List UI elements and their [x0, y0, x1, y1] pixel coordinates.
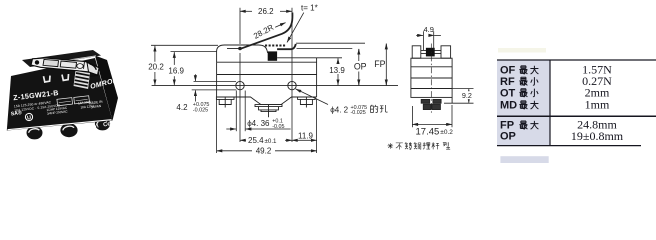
table column divider [549, 60, 551, 146]
leader and label hole dia right [296, 89, 328, 105]
photo OMRON logo [90, 77, 120, 91]
svg-text:-0.025: -0.025 [351, 110, 366, 116]
svg-text:OT: OT [500, 87, 516, 99]
dimension FP [385, 44, 387, 86]
side view internal lines [411, 67, 452, 103]
svg-text:-0.025: -0.025 [193, 108, 208, 114]
lever in free position (angled, solid) [239, 13, 292, 50]
table left column background [497, 60, 550, 146]
svg-text:49.2: 49.2 [256, 147, 272, 156]
extension line x=292 (lever tip / right hole) [291, 8, 293, 142]
photo top-front edge highlight [57, 56, 96, 62]
dimension 17.45±0.2 [412, 105, 452, 127]
photo boxed rating labels [57, 96, 90, 106]
svg-text:FP: FP [500, 120, 514, 132]
dimension 16.9 [171, 52, 217, 86]
extension line x=240 (pivot / left hole) [239, 8, 241, 142]
svg-text:FP: FP [374, 59, 385, 69]
13.9 level line extension [317, 57, 342, 59]
label hole (CJK de kong) [371, 105, 388, 113]
table middle divider [497, 115, 656, 117]
side view terminal screw [421, 100, 441, 110]
photo spring coil [74, 71, 91, 90]
svg-text:ϕ4. 2: ϕ4. 2 [330, 106, 348, 115]
svg-text:16.9: 16.9 [168, 66, 184, 75]
svg-text:9.2: 9.2 [462, 91, 472, 100]
terminal screw left [216, 97, 234, 108]
svg-text:4.9: 4.9 [423, 25, 433, 34]
mounting hole left [236, 81, 244, 89]
photo terminal screw bump right [95, 117, 110, 130]
svg-text:OP: OP [500, 131, 516, 143]
leader 28.2R [275, 23, 285, 28]
photo molded U marks [44, 74, 69, 82]
label t=1 [301, 4, 318, 13]
photo right side face [95, 56, 118, 121]
label 28.2R (rotated) [252, 23, 275, 41]
svg-text:t= 1*: t= 1* [301, 4, 318, 13]
svg-text:±0.2: ±0.2 [440, 129, 453, 136]
svg-text:-0.05: -0.05 [272, 124, 284, 130]
side view lever plates between posts [421, 51, 441, 54]
photo front face [7, 58, 113, 131]
table row FP [500, 120, 514, 132]
table row RF [500, 76, 515, 88]
plunger block (hatched) [268, 51, 277, 60]
photo terminal screw bump middle [60, 123, 77, 137]
photo lever plate [31, 58, 99, 76]
front view body outline [217, 58, 317, 105]
dimension OP [358, 49, 360, 85]
side view lever cross-section block [426, 48, 435, 57]
photo terminal screw bump left [27, 126, 43, 139]
faint header strip above table [498, 48, 546, 53]
photo bottom edge highlight [8, 120, 112, 130]
svg-text:Cє: Cє [103, 121, 112, 128]
side view body [411, 58, 452, 97]
svg-text:SA®: SA® [10, 109, 22, 117]
lever pivot dot [238, 47, 242, 51]
svg-text:OF: OF [500, 64, 516, 76]
side view right post [441, 46, 451, 58]
svg-text:13.9: 13.9 [329, 66, 345, 75]
table row OF [500, 64, 516, 76]
FP level line [296, 42, 365, 44]
side view left post [412, 46, 421, 58]
terminal screw right [298, 97, 316, 108]
faint next row strip below table [500, 156, 548, 163]
dimension 13.9 [337, 58, 339, 85]
svg-text:RF: RF [500, 76, 515, 88]
svg-text:26.2: 26.2 [258, 7, 274, 16]
svg-text:MD: MD [500, 99, 517, 111]
lever at operating position (horizontal bar with curled tip) [277, 44, 296, 49]
datum centerline through mounting holes [152, 85, 398, 87]
OP level line [297, 48, 353, 50]
photo model number text [13, 88, 59, 102]
svg-text:17.45: 17.45 [416, 127, 440, 138]
svg-text:11.9: 11.9 [298, 131, 314, 140]
dimension (p)4.36 [226, 91, 290, 132]
svg-text:25.4: 25.4 [248, 136, 264, 145]
svg-text:4.2: 4.2 [176, 103, 188, 112]
photo ratings text [14, 95, 96, 119]
dimension 26.2 [240, 10, 292, 12]
table row OP [500, 131, 516, 143]
dimension 49.2 [217, 99, 317, 154]
table row OT [500, 87, 516, 99]
front view hump (lever base housing) [217, 45, 317, 62]
svg-text:20.2: 20.2 [148, 63, 164, 72]
leader t=1 [287, 13, 304, 43]
lever tail left of pivot [227, 48, 240, 50]
photo certification marks [10, 100, 112, 131]
svg-text:1mm: 1mm [585, 98, 610, 112]
dimension 11.9 [292, 139, 317, 141]
side view center line [430, 44, 432, 115]
dimension 9.2 [444, 89, 474, 104]
dimension 4.9 [416, 31, 441, 50]
table top border [497, 59, 656, 61]
svg-text:ϕ4. 36: ϕ4. 36 [247, 119, 270, 128]
photo lever tip curl [87, 62, 99, 75]
dimension 20.2 [151, 45, 218, 85]
photo top face [22, 50, 101, 67]
caption: stainless steel lever type (CJK) [388, 142, 451, 149]
svg-text:±0.1: ±0.1 [265, 138, 278, 145]
table row MD [500, 99, 517, 111]
svg-text:OP: OP [354, 62, 367, 72]
svg-text:19±0.8mm: 19±0.8mm [571, 129, 624, 143]
table bottom border [497, 145, 641, 147]
svg-text:Λ: Λ [93, 123, 99, 130]
lever free position dashed outline [265, 45, 286, 47]
mounting hole right [288, 81, 296, 89]
dimension 4.2 hole height (left) [192, 74, 237, 101]
terminal screw middle [255, 105, 282, 118]
dimension 25.4±0.1 [240, 139, 292, 141]
